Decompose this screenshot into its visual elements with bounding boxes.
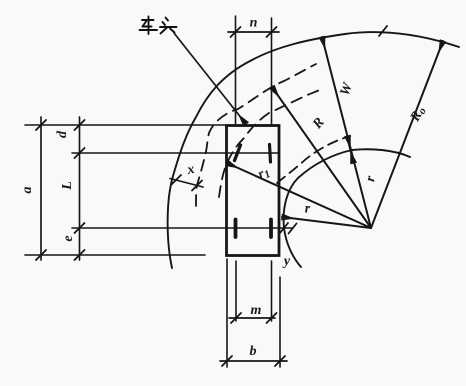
dashed arc r1 path (front inner wheel) <box>219 89 322 197</box>
tick b right <box>275 356 285 366</box>
n extension line left <box>235 16 237 125</box>
front right wheel <box>270 145 271 163</box>
radial line R <box>272 87 371 228</box>
tick e bottom <box>75 250 85 260</box>
tick a bottom <box>36 250 46 260</box>
outer lane edge solid arc <box>168 32 459 268</box>
svg-text:L: L <box>60 181 75 191</box>
dashed arc R path (front outer wheel) <box>196 64 316 206</box>
x clearance dimension line <box>170 179 203 188</box>
b extension line left <box>226 259 228 367</box>
svg-text:R: R <box>310 115 328 133</box>
tick L bottom / e top <box>75 223 85 233</box>
dimension line a (vertical, left) <box>40 117 42 260</box>
rear axle <box>72 227 293 229</box>
leader line from label che-tou to vehicle front <box>174 33 246 124</box>
svg-text:m: m <box>251 303 262 318</box>
m dimension line <box>229 317 275 319</box>
dimension line d-L-e (vertical) <box>79 117 81 260</box>
b extension line right <box>279 277 281 367</box>
small dashed arc (rear inner wheel path) <box>277 136 350 183</box>
svg-text:r: r <box>363 174 379 183</box>
label tou (head) character <box>160 18 177 34</box>
radial line r to rear inner area <box>282 217 371 228</box>
extension line vehicle front <box>25 124 226 126</box>
svg-text:a: a <box>20 187 35 194</box>
tick a top <box>36 120 46 130</box>
label che (vehicle) character <box>140 17 158 35</box>
tick x inner <box>192 181 202 191</box>
svg-text:e: e <box>61 235 76 241</box>
svg-text:W: W <box>338 80 357 98</box>
radial line W with outer arrow <box>322 37 371 228</box>
rear right wheel <box>269 220 273 238</box>
arrow up on W line at small dashed arc <box>348 136 353 156</box>
svg-text:x: x <box>185 162 196 178</box>
m extension line right <box>271 261 273 321</box>
n extension line right <box>271 18 273 125</box>
rear left wheel <box>234 220 238 238</box>
tick m right <box>267 313 277 323</box>
tick d top <box>75 120 85 130</box>
radial line r1 to front inner wheel <box>227 163 371 228</box>
front left wheel <box>235 145 241 161</box>
vehicle body rectangle <box>227 126 280 256</box>
b dimension line <box>220 360 287 362</box>
tick b left <box>222 356 232 366</box>
tick m left <box>231 313 241 323</box>
radial line Ro <box>371 41 443 228</box>
tick x outer <box>171 175 181 185</box>
svg-text:y: y <box>282 254 291 269</box>
tick on outer arc top <box>379 26 387 36</box>
tick on rear axle at vehicle edge <box>280 223 288 233</box>
tick n right <box>267 27 277 37</box>
inner lane edge solid arc <box>284 149 410 267</box>
arrow down on W line at inner lane arc <box>349 143 354 163</box>
n dimension line <box>228 31 279 33</box>
extension line front axle <box>72 152 226 154</box>
svg-text:d: d <box>55 130 70 138</box>
extension line vehicle rear <box>25 254 205 256</box>
tick on rear axle at inner arc <box>289 224 297 234</box>
tick n left <box>231 27 241 37</box>
svg-text:b: b <box>250 344 257 359</box>
svg-text:r: r <box>305 202 311 217</box>
front axle <box>227 152 279 154</box>
svg-text:r1: r1 <box>256 164 273 183</box>
svg-text:n: n <box>250 16 258 31</box>
m extension line left <box>235 261 237 321</box>
tick d bottom / L top <box>75 148 85 158</box>
